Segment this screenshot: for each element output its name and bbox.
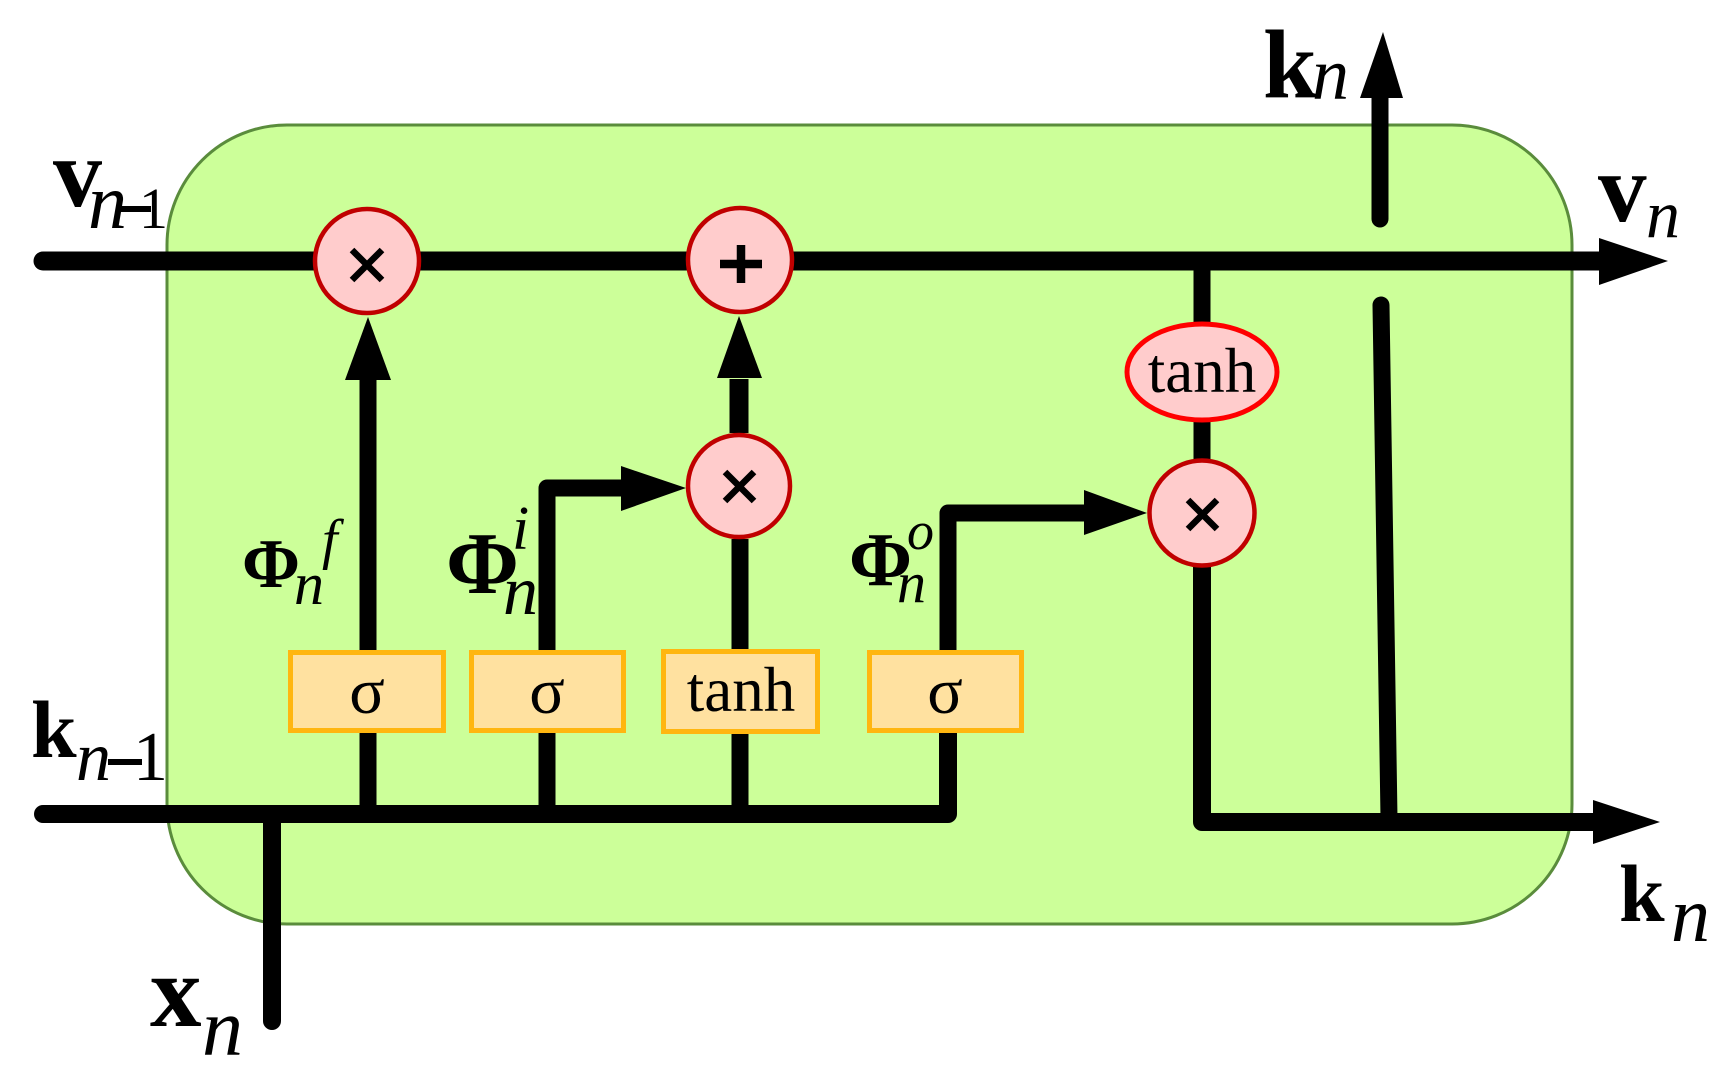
wire: output tanh to output multiply — [1194, 420, 1211, 462]
multiply cross candidate — [725, 472, 754, 501]
wire: hidden state line k (bottom horizontal) with corner up to sigma-o box — [43, 730, 948, 814]
wire: forget gate below box — [360, 730, 377, 814]
wire: hidden pass-through vertical (lower slanted segment) — [1381, 305, 1389, 818]
wire: candidate tanh below box — [732, 730, 749, 814]
multiply node on cell state (forget) — [315, 209, 419, 313]
arrowhead output gate — [1084, 490, 1147, 535]
add node on cell state — [688, 208, 792, 312]
wire: k_n top output shaft — [1372, 97, 1389, 219]
svg-text:n: n — [202, 982, 243, 1073]
arrowhead input gate — [621, 466, 686, 511]
wire: input gate elbow to multiply node — [547, 488, 624, 652]
LSTM cell body — [167, 125, 1572, 924]
svg-text:tanh: tanh — [1148, 336, 1256, 406]
svg-text:σ: σ — [529, 655, 565, 728]
multiply cross forget — [352, 250, 382, 280]
output multiply node — [1150, 461, 1255, 566]
sigma box output gate — [870, 653, 1022, 731]
svg-text:v: v — [1598, 135, 1647, 242]
svg-text:Φ: Φ — [242, 526, 300, 603]
wire: output multiply down and right to k_n output — [1202, 565, 1595, 822]
svg-text:n: n — [294, 551, 324, 617]
svg-text:x: x — [150, 935, 202, 1049]
arrowhead k_n top output — [1360, 32, 1403, 98]
arrowhead into add node — [717, 316, 762, 378]
multiply cross output — [1188, 500, 1217, 529]
wire: forget gate above box (shaft of up arrow) — [360, 379, 377, 652]
arrowhead k_n output right — [1593, 800, 1660, 844]
svg-text:1: 1 — [133, 719, 168, 796]
arrowhead v_n output — [1599, 238, 1668, 285]
svg-text:σ: σ — [927, 655, 963, 728]
wire: shaft from multiply node up to add node — [730, 379, 749, 433]
svg-text:n: n — [1312, 34, 1349, 116]
svg-text:n: n — [897, 550, 926, 615]
svg-text:1: 1 — [139, 176, 168, 241]
wire: candidate tanh above box to multiply node — [732, 539, 749, 652]
multiply node candidate x input — [688, 435, 790, 537]
svg-text:n: n — [1671, 871, 1710, 958]
tanh box candidate — [664, 652, 818, 732]
wire: x_n input vertical — [263, 816, 281, 1021]
svg-text:n: n — [1646, 176, 1680, 252]
svg-text:tanh: tanh — [687, 655, 795, 725]
svg-text:k: k — [1619, 848, 1665, 939]
svg-text:n: n — [88, 158, 127, 245]
wire: input gate below box — [539, 730, 556, 814]
sigma box forget gate — [291, 653, 444, 731]
svg-text:n: n — [503, 553, 538, 630]
svg-text:k: k — [1263, 11, 1317, 118]
svg-text:k: k — [31, 684, 77, 775]
arrowhead forget gate into multiply node — [345, 317, 391, 380]
wire: output gate elbow to output multiply node — [948, 513, 1087, 652]
output tanh ellipse — [1127, 324, 1277, 420]
svg-text:σ: σ — [349, 655, 385, 728]
svg-text:n: n — [76, 719, 111, 796]
wire: cell state line v (top horizontal) — [43, 252, 1600, 271]
wire: branch from cell state down to output tanh — [1194, 261, 1211, 330]
sigma box input gate — [472, 653, 624, 731]
plus sign — [720, 245, 762, 283]
